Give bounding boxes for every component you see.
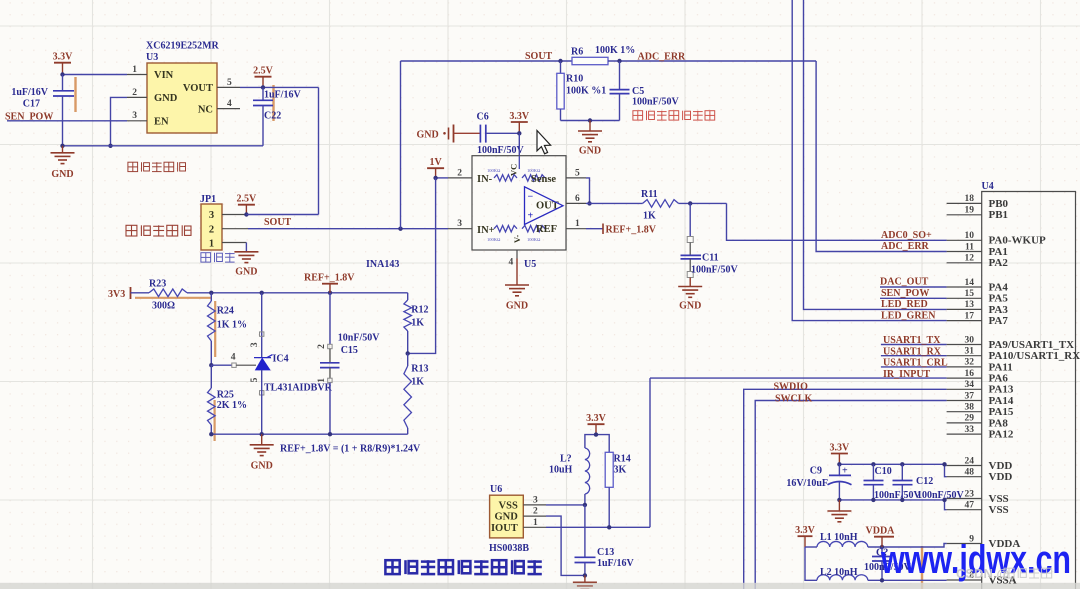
svg-text:2.5V: 2.5V: [237, 194, 258, 205]
svg-text:PA3: PA3: [989, 304, 1009, 316]
node junction SOUT riser: [398, 227, 402, 231]
svg-text:+: +: [528, 211, 534, 222]
svg-text:VSS: VSS: [499, 501, 518, 512]
svg-text:24: 24: [965, 456, 975, 466]
svg-text:VSS: VSS: [989, 493, 1009, 505]
svg-text:14: 14: [965, 278, 975, 288]
annotation mark near R24: [214, 301, 216, 357]
wire U3 GND pin2 down to rail: [111, 97, 128, 145]
wire SWCLK run: [755, 401, 946, 589]
svg-text:18: 18: [965, 194, 975, 204]
svg-text:100KΩ: 100KΩ: [527, 237, 541, 242]
svg-text:1K: 1K: [643, 211, 656, 222]
net label REF+_1.8V (port): [304, 273, 355, 293]
label IR-remote-receiver-circuit (Chinese, blue): [385, 560, 541, 574]
svg-text:V-: V-: [512, 234, 522, 243]
svg-text:USART1_CRL: USART1_CRL: [883, 358, 948, 369]
svg-text:USART1_RX: USART1_RX: [883, 346, 942, 357]
power port 2.5V (U3 output): [253, 66, 274, 88]
op-amp internal resistor R-ref: [522, 226, 545, 232]
svg-text:ADC_ERR: ADC_ERR: [881, 241, 930, 252]
svg-text:31: 31: [965, 347, 975, 357]
svg-text:XC6219E252MR: XC6219E252MR: [146, 41, 220, 52]
svg-text:2: 2: [317, 344, 327, 349]
node junction VSS/L?: [583, 503, 587, 507]
svg-text:REF+_1.8V = (1 + R8/R9)*1.24V: REF+_1.8V = (1 + R8/R9)*1.24V: [280, 444, 421, 455]
capacitor C? (VDDA): [864, 547, 911, 580]
watermark CSDN: [956, 566, 1052, 581]
wire 3.3V to VIN pin1: [63, 74, 128, 76]
node junction JP1 pin3: [244, 212, 248, 216]
op-amp pin 2 line: [448, 168, 472, 178]
svg-text:16: 16: [965, 369, 975, 379]
op-amp internal resistor R-in+: [494, 226, 517, 232]
svg-text:EN: EN: [154, 117, 169, 128]
svg-text:3: 3: [533, 495, 538, 505]
svg-text:1uF/16V: 1uF/16V: [264, 90, 301, 101]
resistor R13: [404, 353, 429, 434]
IC U4 body: [982, 181, 1076, 589]
wire USART1_CRL stub: [881, 366, 947, 368]
svg-text:15: 15: [965, 289, 975, 299]
svg-text:C15: C15: [341, 345, 358, 356]
svg-text:DAC_OUT: DAC_OUT: [880, 277, 929, 288]
wire IR_INPUT run: [650, 377, 947, 379]
node junction 1V: [433, 176, 437, 180]
node junction rail left: [60, 144, 64, 148]
node junctions VDD rail: [837, 462, 947, 466]
net label REF+_1.8V (pin1): [586, 224, 657, 236]
svg-text:GND: GND: [235, 267, 257, 278]
power port 3.3V (VDD): [830, 442, 851, 464]
svg-text:GND: GND: [251, 461, 273, 472]
JP1 pin 3 line: [222, 214, 246, 216]
U4 pin 16 PA6: [947, 369, 1009, 385]
svg-text:2: 2: [457, 168, 462, 178]
U4 pin 47 VSS: [947, 501, 1009, 517]
node junctions VSS rail: [837, 498, 947, 502]
svg-text:2: 2: [209, 224, 214, 235]
resistor R23: [149, 279, 187, 312]
annotation mark through C22: [272, 85, 274, 121]
svg-text:1K: 1K: [411, 377, 424, 388]
wire U6 GND down to rail: [546, 516, 585, 575]
svg-text:SOUT: SOUT: [264, 217, 292, 228]
U4 pin 31 PA10/USART1_RX: [947, 347, 1080, 363]
svg-text:GND: GND: [51, 169, 73, 180]
op-amp triangle: [525, 187, 564, 225]
svg-text:+: +: [842, 466, 848, 477]
capacitor C17: [11, 75, 74, 146]
svg-text:SEN_POW: SEN_POW: [881, 288, 929, 299]
wire JP1 pin3 to VOUT vertical: [246, 214, 318, 216]
svg-text:ADC0_SO+: ADC0_SO+: [881, 230, 932, 241]
svg-text:100KΩ: 100KΩ: [487, 168, 501, 173]
U3 pin 2: [127, 88, 147, 98]
U4 pin 30 PA9/USART1_TX: [947, 335, 1075, 351]
op-amp pin 4 line: [509, 250, 518, 268]
svg-text:NC: NC: [198, 105, 213, 116]
svg-text:100nF/50V: 100nF/50V: [632, 97, 679, 108]
svg-text:R23: R23: [149, 279, 166, 290]
svg-text:3K: 3K: [614, 465, 627, 476]
svg-text:10uH: 10uH: [549, 465, 573, 476]
op-amp internal resistor R-in-: [494, 175, 517, 181]
wire REF rail: [187, 292, 408, 294]
U4 pin 12 PA2: [947, 254, 1009, 270]
annotation mark near C17: [74, 77, 76, 112]
svg-text:SWCLK: SWCLK: [775, 394, 812, 405]
U3 pin 5: [217, 78, 240, 88]
svg-text:19: 19: [965, 206, 975, 216]
connector JP1 body: [200, 194, 222, 250]
svg-text:PA12: PA12: [989, 429, 1014, 441]
svg-text:VDD: VDD: [989, 471, 1013, 483]
U4 pin 37 PA14: [947, 391, 1014, 407]
svg-text:INA143: INA143: [366, 259, 399, 270]
ground symbol C13: [573, 575, 597, 589]
svg-text:REF+_1.8V: REF+_1.8V: [304, 273, 355, 284]
ground symbol C11: [678, 278, 702, 312]
svg-text:GND: GND: [506, 301, 528, 312]
node junction at C22 top: [261, 85, 265, 89]
svg-text:LED_GREN: LED_GREN: [881, 310, 936, 321]
svg-text:1uF/16V: 1uF/16V: [11, 87, 48, 98]
wire IR riser up: [649, 378, 651, 527]
capacitor C9 (polarized): [786, 464, 851, 500]
JP1 pin 1 line: [222, 242, 246, 244]
svg-text:IC4: IC4: [273, 354, 289, 365]
U4 pin 23 VSS: [947, 489, 1009, 505]
svg-text:IN-: IN-: [477, 174, 493, 185]
wire USART1_TX stub: [881, 344, 947, 346]
svg-text:L?: L?: [560, 454, 572, 465]
capacitor C6: [477, 112, 525, 157]
svg-text:R11: R11: [641, 189, 658, 200]
svg-text:PA4: PA4: [989, 281, 1009, 293]
wire L? to VSS node: [584, 494, 586, 505]
U4 pin 8 VSSA: [947, 571, 1017, 587]
svg-text:1: 1: [317, 378, 327, 383]
svg-text:4: 4: [509, 258, 514, 268]
wire VDD rail: [839, 464, 946, 476]
svg-text:10: 10: [965, 231, 975, 241]
svg-text:−: −: [528, 192, 534, 203]
svg-text:37: 37: [965, 391, 975, 401]
IC U6 HS0038B body: [489, 484, 529, 554]
svg-text:CSDN @: CSDN @: [956, 566, 1009, 581]
svg-text:USART1_TX: USART1_TX: [883, 335, 941, 346]
wire VDD rail to pin24: [945, 465, 947, 467]
svg-text:PA2: PA2: [989, 257, 1009, 269]
svg-text:34: 34: [965, 380, 975, 390]
svg-text:300Ω: 300Ω: [152, 301, 175, 312]
svg-text:100nF/50V: 100nF/50V: [477, 145, 524, 156]
svg-text:C6: C6: [477, 112, 489, 123]
wire VOUT vertical to JP1 row: [318, 87, 320, 214]
svg-text:VSS: VSS: [989, 504, 1009, 516]
capacitor C12: [893, 464, 965, 501]
node junctions REF rail: [209, 291, 332, 295]
svg-text:U6: U6: [490, 484, 502, 495]
capacitor C13: [575, 547, 635, 575]
wire R14 to IOUT node: [608, 487, 610, 527]
svg-text:38: 38: [965, 403, 975, 413]
svg-text:17: 17: [965, 311, 975, 321]
svg-text:VDD: VDD: [989, 460, 1013, 472]
svg-text:C11: C11: [702, 253, 719, 264]
mouse cursor: [537, 131, 551, 154]
annotation mark under R23: [135, 297, 211, 299]
wire LED_GREN riser: [792, 0, 946, 321]
svg-text:PA14: PA14: [989, 395, 1014, 407]
svg-text:JP1: JP1: [200, 194, 216, 205]
svg-text:PB1: PB1: [989, 209, 1009, 221]
svg-text:1: 1: [132, 65, 137, 75]
wire SWDIO run: [744, 389, 947, 589]
U6 pin 2 line: [523, 507, 546, 517]
U4 pin 34 PA13: [947, 380, 1014, 396]
resistor R25: [208, 365, 247, 434]
wire VSS rail: [839, 500, 946, 510]
svg-text:TL431AIDBVR: TL431AIDBVR: [264, 383, 333, 394]
annotation mark near R25: [214, 400, 216, 441]
wire VOUT pin5 to 2.5V node: [240, 86, 319, 88]
svg-text:100KΩ: 100KΩ: [527, 168, 541, 173]
wire R6 to ADC_ERR riser: [608, 60, 816, 62]
svg-text:L2 10nH: L2 10nH: [820, 567, 858, 578]
svg-text:PA10/USART1_RX: PA10/USART1_RX: [989, 350, 1080, 362]
node junction R14/IOUT: [607, 525, 611, 529]
node junction R12/R13: [406, 351, 410, 355]
wire L2 to VSSA pin: [868, 579, 947, 581]
resistor R11: [641, 189, 679, 222]
IC U3 XC6219E252MR body: [146, 41, 220, 134]
node junction gnd stem: [588, 118, 592, 122]
wire LED_RED riser: [804, 0, 947, 309]
svg-text:U4: U4: [982, 181, 994, 192]
svg-text:3: 3: [457, 219, 462, 229]
svg-text:C12: C12: [916, 476, 933, 487]
resistor R24: [208, 293, 247, 365]
svg-text:PA13: PA13: [989, 384, 1014, 396]
svg-text:3: 3: [250, 342, 260, 347]
svg-text:2: 2: [132, 88, 137, 98]
node junction R10 top: [558, 59, 562, 63]
node junction at 3.3V/C17: [60, 72, 64, 76]
resistor R10: [557, 61, 606, 121]
svg-text:3.3V: 3.3V: [795, 525, 816, 536]
svg-text:1uF/16V: 1uF/16V: [597, 558, 634, 569]
wire L1 to VDDA pin: [868, 544, 947, 548]
svg-text:PA6: PA6: [989, 373, 1009, 385]
ground bars repaint (C13): [573, 582, 597, 589]
U4 pin 32 PA11: [947, 358, 1013, 374]
power port 3.3V (U3 input): [53, 52, 74, 75]
op-amp internal VC stub: [518, 156, 520, 169]
ground symbol REF: [250, 434, 274, 471]
U4 pin 19 PB1: [947, 206, 1008, 222]
svg-text:PA1: PA1: [989, 246, 1008, 258]
ground symbol VSS: [827, 500, 851, 522]
svg-text:32: 32: [965, 358, 975, 368]
svg-text:C10: C10: [875, 466, 892, 477]
svg-text:REF: REF: [536, 224, 557, 235]
wire REF bottom rail: [211, 433, 407, 435]
op-amp pin 5 line: [566, 168, 586, 178]
U4 pin 24 VDD: [947, 456, 1013, 472]
node junction C6/3.3V: [517, 131, 521, 135]
svg-text:HS0038B: HS0038B: [489, 543, 529, 554]
svg-text:3.3V: 3.3V: [830, 442, 851, 453]
svg-text:29: 29: [965, 414, 975, 424]
wire JP1 pin1 down to gnd: [245, 243, 247, 252]
svg-text:33: 33: [965, 425, 975, 435]
U6 pin 1 line: [523, 518, 546, 528]
ground symbol JP1: [234, 252, 258, 278]
node junction C13 gnd: [583, 573, 587, 577]
svg-text:U3: U3: [146, 52, 158, 63]
svg-text:1K: 1K: [411, 318, 424, 329]
svg-text:VC: VC: [509, 164, 519, 176]
svg-text:100nF/50V: 100nF/50V: [917, 490, 964, 501]
wire OUT to R11: [586, 202, 643, 204]
svg-text:PA8: PA8: [989, 417, 1009, 429]
wire 3.3V drop to L2: [805, 547, 817, 580]
power port 3.3V (IR): [586, 413, 607, 435]
power port GND (sideways, C6): [417, 125, 481, 143]
ground symbol fault-detect: [578, 121, 602, 157]
node junction C5 top: [617, 59, 621, 63]
op-amp pin 6 line: [566, 194, 586, 204]
op-amp internal 100K labels: [487, 168, 541, 242]
node junction VDDA: [880, 545, 884, 549]
svg-text:IR_INPUT: IR_INPUT: [883, 369, 931, 380]
svg-text:IN+: IN+: [477, 225, 495, 236]
svg-text:PA0-WKUP: PA0-WKUP: [989, 235, 1047, 247]
annotation mark near C-bottom-right: [921, 546, 923, 589]
wire R10/C5 bottom rail: [561, 120, 620, 122]
wire SEN_POW stub: [880, 297, 947, 299]
svg-text:VIN: VIN: [154, 70, 174, 81]
label sensor-power (Chinese): [128, 162, 186, 171]
svg-text:IOUT: IOUT: [491, 523, 518, 534]
power port 3.3V (INA): [509, 111, 530, 134]
svg-text:C22: C22: [264, 111, 281, 122]
wire U6 IOUT to IR riser: [546, 526, 650, 528]
U6 pin 3 line: [523, 495, 546, 505]
svg-text:PA15: PA15: [989, 406, 1014, 418]
power port VDDA: [866, 526, 896, 548]
wire 1V vertical to R12/R13 node: [408, 178, 436, 354]
capacitor C15: [317, 293, 380, 434]
JP1 pin 2 line: [222, 228, 248, 230]
U4 pin 13 PA3: [947, 300, 1009, 316]
svg-text:C17: C17: [23, 99, 40, 110]
svg-text:Sense: Sense: [531, 174, 556, 185]
svg-text:5: 5: [575, 168, 580, 178]
svg-text:2.5V: 2.5V: [253, 66, 274, 77]
wire ADC_ERR riser: [816, 61, 947, 252]
inductor L?: [549, 448, 590, 494]
svg-text:47: 47: [965, 501, 975, 511]
op-amp internal resistor R-sense: [522, 175, 545, 181]
wire 3.3V to L1: [805, 546, 817, 548]
wire ADC0_SO+ run to U4 pin10: [727, 203, 947, 240]
ground symbol U5: [505, 259, 529, 312]
svg-text:1: 1: [575, 219, 580, 229]
label catalytic-combustion (Chinese): [126, 225, 191, 236]
node junction 3.3V IR: [594, 432, 598, 436]
svg-text:REF+_1.8V: REF+_1.8V: [606, 224, 657, 235]
svg-text:LED_RED: LED_RED: [881, 299, 928, 310]
svg-text:3: 3: [209, 210, 214, 221]
svg-text:R6: R6: [571, 47, 583, 58]
svg-text:C5: C5: [632, 86, 644, 97]
U4 pin 10 PA0-WKUP: [947, 231, 1046, 247]
node junctions bottom rail: [209, 432, 332, 436]
svg-text:100nF/50V: 100nF/50V: [874, 490, 921, 501]
svg-text:R12: R12: [411, 305, 428, 316]
node junction C? bottom: [880, 578, 884, 582]
svg-text:SWDIO: SWDIO: [774, 381, 809, 392]
svg-text:100nF/50V: 100nF/50V: [691, 265, 738, 276]
svg-text:PA7: PA7: [989, 315, 1009, 327]
wire VSS rail to pin23: [945, 498, 947, 500]
capacitor C11: [681, 203, 739, 277]
power port 1V: [427, 157, 444, 178]
svg-text:3.3V: 3.3V: [509, 111, 530, 122]
U3 pin 1: [127, 65, 147, 75]
U4 pin 15 PA5: [947, 289, 1009, 305]
svg-text:C13: C13: [597, 547, 614, 558]
svg-text:PB0: PB0: [989, 198, 1009, 210]
svg-text:1K 1%: 1K 1%: [217, 320, 247, 331]
capacitor C5: [610, 61, 680, 121]
svg-text:100K 1%: 100K 1%: [595, 45, 635, 56]
label sensor-fault-detect (Chinese, red): [633, 111, 715, 120]
wire R11 to corner: [679, 202, 727, 204]
wire 3.3V down to INA VC pin: [518, 133, 520, 155]
U4 pin 33 PA12: [947, 425, 1014, 441]
svg-text:PA9/USART1_TX: PA9/USART1_TX: [989, 339, 1075, 351]
svg-text:3V3: 3V3: [108, 289, 125, 300]
svg-text:VOUT: VOUT: [183, 83, 213, 94]
svg-text:4: 4: [231, 353, 236, 363]
svg-text:C9: C9: [810, 466, 822, 477]
node junction C11 top: [688, 201, 692, 205]
svg-text:23: 23: [965, 489, 975, 499]
U4 pin 29 PA8: [947, 414, 1009, 430]
svg-text:3: 3: [132, 111, 137, 121]
node junction pin2 rail: [108, 144, 112, 148]
wire node down to C13: [584, 505, 586, 557]
resistor R12: [404, 293, 429, 354]
svg-text:48: 48: [965, 468, 975, 478]
wire 3.3V split L?/R14: [585, 435, 609, 453]
svg-text:11: 11: [965, 242, 974, 252]
svg-text:2K 1%: 2K 1%: [217, 400, 247, 411]
node junction R24/R25: [209, 363, 213, 367]
svg-text:100K %1: 100K %1: [566, 86, 606, 97]
inductor L2: [817, 567, 868, 580]
wire Sense pin5 jog to OUT: [586, 178, 590, 204]
wire SOUT riser up to R6 row: [400, 61, 402, 229]
wire USART1_RX stub: [881, 355, 947, 357]
svg-text:12: 12: [965, 254, 975, 264]
svg-text:1V: 1V: [429, 157, 442, 168]
svg-text:6: 6: [575, 194, 580, 204]
